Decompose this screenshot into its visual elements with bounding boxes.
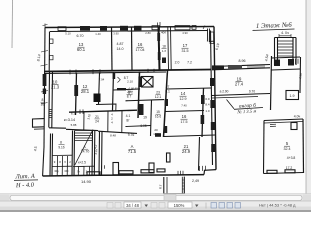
svg-text:40б: 40б: [161, 31, 166, 35]
svg-text:1.9: 1.9: [290, 94, 295, 98]
svg-text:к=3.14: к=3.14: [64, 118, 75, 122]
svg-text:4.5: 4.5: [33, 146, 38, 151]
svg-text:27: 27: [166, 85, 170, 89]
small room 1.9: [286, 91, 299, 100]
bottom outer wall: [43, 175, 204, 176]
left inner wall: [48, 32, 50, 71]
svg-text:6.70: 6.70: [77, 34, 84, 38]
partition top rooms x132: [131, 27, 134, 71]
bottom window B2: [119, 171, 133, 174]
corner tick top-left: [43, 24, 48, 28]
svg-text:14.0: 14.0: [117, 47, 124, 51]
top outer wall: [45, 27, 214, 28]
niche wall right top: [207, 29, 213, 42]
handwriting leader diagonal: [227, 100, 235, 109]
door ticks annex entrance: [178, 171, 183, 176]
handwritten caption top right: [14, 22, 295, 190]
svg-text:4.6: 4.6: [128, 87, 133, 91]
corridor top wall ticks: [80, 109, 83, 114]
svg-text:24: 24: [95, 119, 99, 123]
wall y135 (x164-216): [164, 135, 215, 137]
window W8 top dark: [175, 26, 190, 30]
tick pair above wall x158: [158, 22, 161, 27]
svg-text:71.5: 71.5: [128, 149, 137, 154]
wall y111 (x163-204): [165, 111, 204, 112]
stair bottom cells: [73, 166, 95, 175]
right wall window top light: [210, 32, 214, 44]
svg-text:4.1: 4.1: [126, 114, 131, 118]
right wall window blocks dark: [210, 78, 214, 86]
svg-text:16.6: 16.6: [155, 115, 161, 119]
svg-text:1.40: 1.40: [95, 32, 101, 36]
svg-text:19: 19: [143, 116, 147, 120]
svg-text:14.6: 14.6: [153, 132, 159, 136]
cluster wall x151: [151, 100, 152, 136]
svg-text:4.40: 4.40: [132, 86, 138, 90]
partition top rooms x159 dark: [159, 27, 160, 71]
shaft X-box: [142, 77, 154, 88]
ticks right of small rooms: [296, 59, 299, 64]
svg-text:5.10: 5.10: [65, 31, 71, 35]
page dropdown arrow: [145, 205, 149, 208]
balcony hatch on y66 wall: [248, 65, 264, 69]
handwriting underline: [234, 108, 263, 110]
svg-text:14.90: 14.90: [81, 179, 92, 184]
tiny room and dimension labels: [33, 31, 303, 190]
separator: [205, 203, 207, 209]
toolbar grip tab: [164, 195, 176, 201]
x159 dark blocks: [157, 33, 160, 41]
tiny dims above top wall: [65, 31, 188, 36]
svg-text:2.80: 2.80: [145, 31, 151, 35]
zoom out icon: [151, 203, 157, 209]
svg-text:1 Этаж №6: 1 Этаж №6: [256, 22, 293, 30]
dark door block narrow room: [162, 58, 166, 64]
svg-text:17.5: 17.5: [181, 120, 188, 124]
interior wall y70 second line: [44, 72, 166, 74]
annex hatch right: [182, 180, 184, 189]
wall x199 (y137-170): [199, 137, 200, 171]
svg-text:2.10: 2.10: [127, 80, 133, 84]
svg-text:16: 16: [182, 114, 187, 119]
svg-text:9.76: 9.76: [128, 133, 135, 137]
svg-text:32.4: 32.4: [284, 147, 291, 151]
bottom UI: scrollbar row: [0, 194, 311, 201]
window W1 top: [58, 27, 66, 31]
svg-text:21.3: 21.3: [51, 85, 60, 90]
svg-text:14: 14: [181, 91, 186, 96]
wall y88 (x166-213): [167, 88, 212, 89]
wall x166 mid: [164, 70, 168, 137]
window W4 top dark: [120, 26, 128, 31]
svg-text:4+3.8: 4+3.8: [287, 156, 296, 160]
scrollbar corner right: [303, 195, 311, 201]
cluster rooms x126-165 : wall y100: [126, 100, 165, 101]
zoom combo: [168, 202, 192, 208]
svg-text:34 / 48: 34 / 48: [126, 203, 139, 208]
scan fold line left: [11, 0, 14, 48]
layout icon 4: [235, 203, 241, 209]
window W3 top dark: [100, 26, 107, 31]
layout icon 3: [227, 203, 233, 209]
niche left wall 1: [50, 39, 54, 43]
svg-text:24.9: 24.9: [182, 149, 191, 154]
wc cluster right double wall / stair left wall: [72, 131, 75, 177]
zoom dropdown arrow: [195, 205, 199, 208]
stair right wall: [92, 131, 95, 177]
page field: [124, 202, 141, 208]
bottom wall step: [204, 170, 216, 175]
bottom window B4: [157, 169, 165, 172]
wc cluster horizontals: [52, 155, 73, 166]
right building right wall: [302, 119, 305, 173]
svg-text:7.04: 7.04: [99, 78, 105, 82]
window left wall dark 2: [43, 89, 46, 95]
corridor partitions: [84, 110, 122, 132]
wall x202 (y88-137): [202, 88, 204, 137]
door ticks room A: [118, 77, 121, 83]
layout icon 1: [211, 203, 217, 209]
toolbar button prev: [107, 203, 113, 209]
svg-text:60.1: 60.1: [77, 47, 86, 52]
wc cluster mid verticals: [57, 156, 67, 176]
svg-text:30у: 30у: [54, 169, 59, 173]
door rect on wall x165: [167, 153, 171, 162]
svg-text:12.9: 12.9: [180, 97, 187, 101]
left outer wall: [44, 28, 45, 148]
svg-text:17.2: 17.2: [286, 166, 293, 170]
dark block corner y66: [212, 65, 224, 69]
interior stair wall x49-52: [49, 72, 53, 128]
window left wall dark: [43, 74, 47, 86]
left wall dim ticks: [41, 51, 49, 105]
partition x113: [113, 72, 114, 111]
svg-text:8т: 8т: [126, 119, 130, 123]
x202 window blocks dark: [201, 95, 205, 104]
svg-text:18: 18: [162, 45, 166, 49]
svg-text:7.40: 7.40: [181, 103, 187, 107]
svg-text:8: 8: [42, 98, 44, 102]
niche left wall 2: [50, 55, 54, 59]
door ticks right step: [200, 166, 206, 171]
partition x99 upper: [99, 72, 100, 104]
porch bump P1: [113, 163, 119, 175]
porch left annex: [33, 119, 45, 128]
cluster wall y125: [126, 126, 152, 127]
right small rooms column: [272, 57, 301, 58]
dark blocks in right small rooms: [274, 60, 280, 67]
svg-text:7.2: 7.2: [187, 61, 192, 65]
window W6 top: [152, 26, 160, 30]
top inner wall: [50, 31, 208, 32]
svg-text:23: 23: [156, 91, 160, 95]
chimney black block: [94, 94, 101, 103]
svg-text:15: 15: [156, 110, 160, 114]
svg-text:28.1: 28.1: [81, 89, 90, 94]
window block on x76 wall dark: [74, 85, 78, 96]
svg-text:21: 21: [95, 115, 99, 119]
svg-text:17.04: 17.04: [136, 48, 145, 52]
window W5 top dark: [134, 26, 142, 31]
corridor bottom wall segs: [49, 127, 66, 129]
door opening ticks on y71 wall: [70, 69, 154, 75]
partition x76 upper: [76, 73, 77, 116]
wc cluster left double wall: [50, 134, 53, 177]
svg-text:4.90: 4.90: [182, 31, 188, 35]
svg-text:16: 16: [138, 42, 143, 47]
window W8b top: [192, 26, 196, 30]
wall y94 (x213-270): [212, 94, 270, 96]
corridor top wall: [69, 110, 137, 112]
wall x270 (y56-110): [271, 56, 272, 110]
bottom window B1: [87, 172, 100, 175]
dark seg y89 wall: [117, 88, 126, 90]
interior wall y89 (x114-140): [114, 89, 141, 90]
svg-text:а 2.90: а 2.90: [220, 90, 229, 94]
svg-text:8.1т: 8.1т: [71, 112, 77, 116]
svg-text:39т: 39т: [64, 169, 69, 173]
svg-text:6.05: 6.05: [140, 124, 146, 128]
right building inner details: [291, 123, 297, 130]
svg-text:8.48: 8.48: [110, 134, 116, 138]
svg-text:4. 0ч: 4. 0ч: [281, 31, 289, 35]
svg-text:150%: 150%: [174, 203, 185, 208]
partition top rooms x169 double: [168, 27, 171, 70]
medium block y66: [228, 65, 242, 69]
window W2 top dark: [80, 26, 90, 31]
left wall lower: [43, 147, 44, 176]
cluster hatch dark: [139, 104, 144, 115]
corner tick top-right: [203, 26, 205, 30]
svg-text:Н - 4.0: Н - 4.0: [15, 182, 35, 190]
svg-text:8: 8: [60, 141, 62, 145]
svg-text:1.б: 1.б: [162, 49, 167, 53]
hatch block x113 top: [113, 73, 116, 80]
ticks left of porch: [102, 165, 105, 169]
scrollbar left button: [0, 195, 9, 201]
main stair box right wall: [99, 131, 102, 176]
dark bar left of shaft: [138, 77, 141, 88]
wall x166 window blocks: [165, 99, 168, 106]
svg-text:17: 17: [183, 43, 188, 48]
scrollbar thumb: [10, 195, 302, 200]
partition top rooms x111: [111, 27, 114, 71]
right wall of main block outer: [214, 27, 216, 170]
svg-text:Нет | 44.53 * -0.48 д: Нет | 44.53 * -0.48 д: [259, 202, 296, 207]
svg-text:31.5: 31.5: [182, 49, 189, 53]
svg-text:4.0ч: 4.0ч: [294, 115, 301, 119]
right building top wall: [264, 119, 303, 121]
right building bottom windows: [267, 170, 277, 173]
svg-text:8.1: 8.1: [128, 92, 133, 96]
window right edge border: [306, 0, 311, 194]
top-right section: wall y66 (x213-270): [212, 65, 270, 67]
closet wall under room12: [96, 104, 116, 111]
annex below: outer rect: [164, 177, 185, 196]
svg-text:1.0: 1.0: [205, 109, 210, 113]
porch bump P2: [149, 163, 154, 173]
svg-text:0.9: 0.9: [205, 97, 210, 101]
svg-text:8.1: 8.1: [165, 90, 170, 94]
svg-text:14.7б: 14.7б: [81, 150, 90, 154]
svg-text:к+2.5: к+2.5: [78, 161, 86, 165]
svg-text:3.90: 3.90: [113, 32, 119, 36]
right building bottom wall: [264, 173, 304, 174]
svg-text:4.87: 4.87: [117, 42, 124, 46]
toolbar button next: [115, 203, 121, 209]
stair wall hatch: [49, 110, 52, 118]
svg-text:39: 39: [41, 103, 45, 107]
zoom in icon: [159, 203, 165, 209]
dim arrow above ladder: [279, 34, 291, 38]
interior wall y70 across: [44, 70, 211, 72]
layout icon 2: [219, 203, 225, 209]
svg-text:Лит. А: Лит. А: [14, 173, 35, 181]
svg-text:12.1: 12.1: [155, 95, 162, 99]
svg-text:27.4: 27.4: [235, 82, 244, 87]
svg-text:9.70: 9.70: [249, 90, 255, 94]
main stair diagonal: [75, 130, 93, 166]
svg-text:9.1б: 9.1б: [58, 146, 64, 150]
ladder detail top-right: [275, 38, 297, 66]
svg-text:2,49: 2,49: [192, 179, 199, 183]
main stair rungs: [75, 131, 93, 141]
svg-text:8.96: 8.96: [239, 59, 246, 63]
svg-text:2.0: 2.0: [175, 61, 180, 65]
annex inner lines: [167, 177, 182, 195]
svg-text:8.4: 8.4: [205, 103, 210, 107]
right wall of main block inner: [211, 31, 213, 166]
bottom window B3: [141, 170, 154, 173]
partition x139-138 upper: [138, 72, 140, 118]
right building left wall: [263, 121, 266, 174]
svg-text:№ 1 3.5 м: № 1 3.5 м: [236, 108, 256, 114]
dark block on y135 wall: [155, 133, 161, 137]
toolbar background: [0, 201, 311, 212]
svg-text:5.88: 5.88: [71, 123, 77, 127]
